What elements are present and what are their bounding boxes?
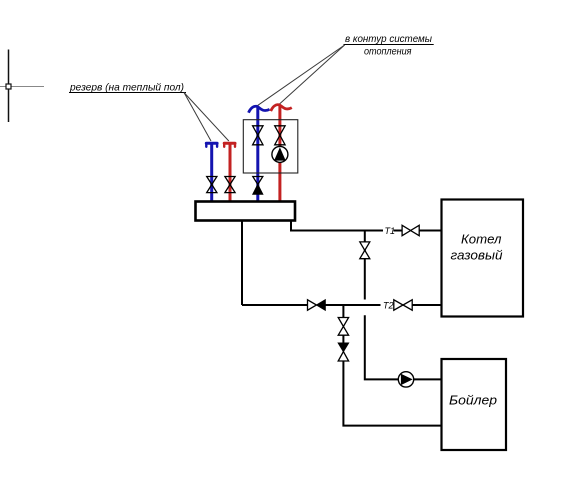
DHW pump	[398, 372, 413, 387]
svg-text:Котел: Котел	[461, 232, 502, 247]
left blue riser pipe	[210, 143, 213, 201]
gas boiler box	[442, 200, 524, 317]
left red riser cap	[224, 143, 235, 147]
label T2	[383, 301, 394, 311]
wire: between valve and check valve	[342, 335, 344, 343]
blue pipe break squiggle	[249, 106, 270, 112]
valve T2	[394, 300, 412, 310]
check valve on DHW return	[338, 343, 348, 361]
DHW return riser top stub	[342, 305, 344, 318]
wire: T2 line middle segment	[325, 304, 380, 306]
svg-text:отопления: отопления	[364, 47, 412, 58]
pump group box	[243, 120, 297, 173]
svg-text:Бойлер: Бойлер	[449, 393, 497, 408]
manifold	[196, 202, 296, 221]
wire: T2 return line left segment	[242, 304, 308, 306]
check valve on blue pipe below box	[253, 177, 263, 195]
hot water tank box	[442, 359, 507, 450]
circulation pump in box	[272, 146, 288, 162]
leader line to left blue riser cap	[184, 93, 211, 142]
leader line to left red riser cap	[184, 93, 229, 142]
valve on left red riser	[225, 177, 235, 193]
red heating supply pipe	[278, 105, 281, 201]
blue heating supply pipe	[256, 107, 259, 201]
red pipe break squiggle	[271, 105, 292, 111]
wire: DHW return to boiler tank	[343, 361, 441, 426]
valve on blue pipe in pump box	[253, 126, 263, 145]
check valve on T2 line	[308, 300, 326, 310]
valve on bypass	[360, 242, 370, 259]
wire: T1 to valve	[394, 230, 403, 232]
wire: manifold left drop	[241, 221, 243, 305]
svg-text:газовый: газовый	[451, 247, 503, 262]
crosshair cursor	[0, 50, 44, 123]
left red riser pipe	[229, 143, 232, 201]
svg-text:в контур системы: в контур системы	[345, 34, 432, 45]
label: rezerv (na teply pol)	[69, 83, 186, 94]
valve T1	[402, 225, 419, 235]
leader line to red supply squiggle	[279, 45, 345, 105]
label T1	[385, 226, 396, 236]
wire: manifold right drop to T1	[291, 221, 383, 231]
svg-text:T1: T1	[385, 226, 396, 236]
svg-text:T2: T2	[383, 301, 394, 311]
left blue riser cap	[206, 143, 217, 147]
svg-text:резерв (на теплый пол): резерв (на теплый пол)	[69, 83, 184, 94]
leader line to blue supply squiggle	[257, 45, 345, 106]
valve on left blue riser	[207, 177, 217, 193]
wire: T1 valve to boiler	[419, 230, 441, 232]
bypass pipe T1 side	[364, 231, 366, 300]
bypass pipe lower part to DHW pump line	[365, 315, 442, 379]
valve on DHW return	[338, 318, 348, 336]
wire: T2 valve to boiler	[412, 304, 441, 306]
label: v kontur sistemy otopleniya	[344, 34, 434, 58]
valve on red pipe in pump box	[275, 126, 285, 145]
